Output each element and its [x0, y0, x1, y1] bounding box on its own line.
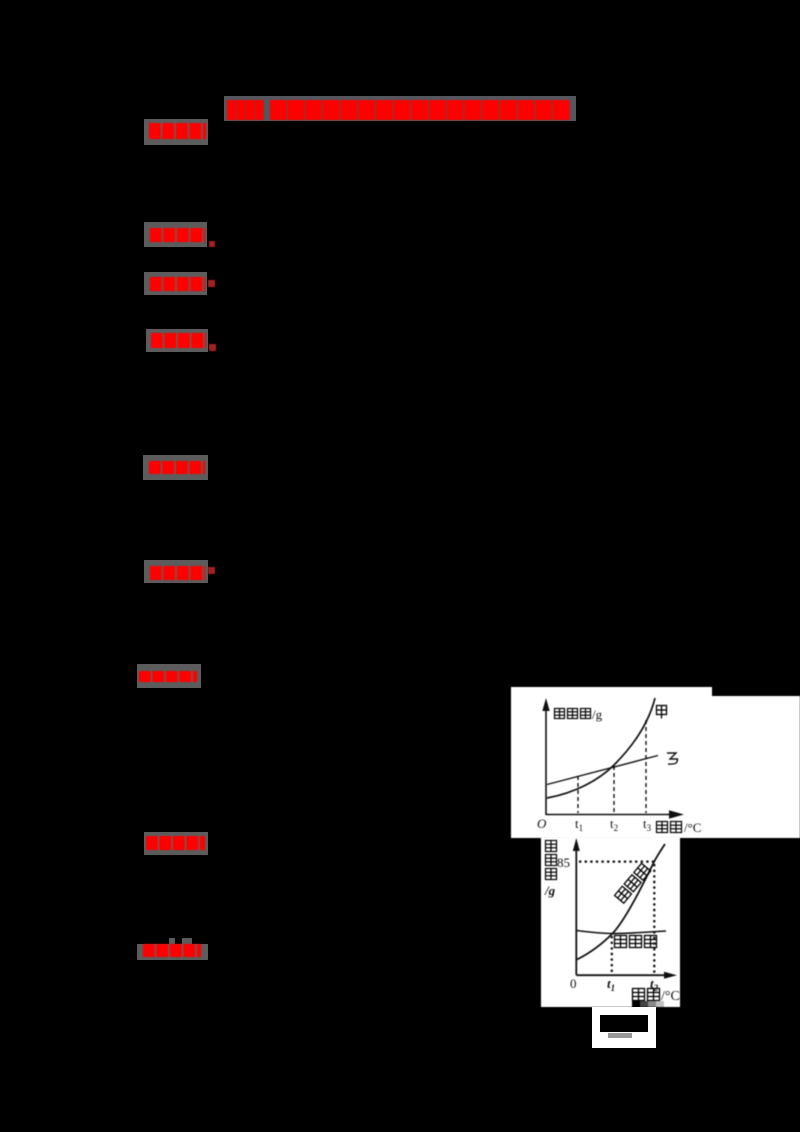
marker 9 highlight box — [137, 944, 208, 960]
chart 1 y-axis — [545, 705, 547, 815]
marker 3 period — [208, 280, 215, 287]
answer stamp black rect — [600, 1015, 648, 1032]
chart 2 gradient strip — [632, 1001, 640, 1007]
chart 1 dashed t3 — [645, 720, 647, 813]
marker 5 highlight box — [143, 455, 208, 480]
chart 1 x-axis label 温度/°C — [657, 822, 682, 833]
chart 1: solubility curves 甲 and 乙 — [511, 687, 800, 838]
svg-text:/g: /g — [592, 707, 603, 722]
marker 6 highlight box — [144, 560, 208, 583]
marker 9 red text — [143, 944, 201, 957]
marker 4 highlight box — [146, 329, 208, 352]
marker 8 red text — [146, 836, 205, 850]
chart 2 dotted t1 — [611, 936, 613, 973]
chart 2 y-axis label 溶解度/g stacked — [546, 841, 557, 880]
marker 8 highlight box — [144, 832, 208, 855]
chart 2 x-axis label 温度/°C — [633, 989, 660, 1001]
chart 1 label 乙 — [667, 753, 678, 764]
chart 2: KNO3 / NaCl solubility — [541, 837, 680, 1007]
title red text 2020年中考化学试题(九年级试题) — [227, 100, 264, 120]
svg-text:0: 0 — [570, 976, 577, 991]
marker 6 period — [208, 567, 215, 574]
marker 7 red text — [139, 671, 197, 682]
marker (6分)(1) highlight box — [144, 119, 208, 145]
marker 7 highlight box — [137, 664, 201, 688]
chart 1 curve 甲 — [547, 698, 655, 798]
chart 1 top-right black notch — [712, 687, 800, 696]
answer stamp gray smudge — [608, 1033, 632, 1038]
svg-text:85: 85 — [557, 855, 570, 870]
chart 1 y-axis label 溶解度/g — [555, 709, 591, 719]
svg-text:O: O — [537, 816, 547, 831]
marker 9 tab a — [169, 938, 175, 944]
chart 2 NaCl curve — [577, 931, 667, 934]
marker 1 red text — [149, 123, 206, 139]
marker 5 red text — [149, 461, 205, 474]
chart 1 dashed t2 — [613, 766, 615, 813]
marker 2 red text — [150, 228, 205, 242]
chart 2 white panel — [541, 837, 680, 1007]
chart 2 dotted t2 — [653, 864, 655, 973]
marker 3 red text — [150, 277, 205, 291]
chart 2 x-axis — [576, 974, 670, 976]
title highlight box — [224, 96, 576, 121]
chart 2 KNO3 curve — [577, 844, 665, 960]
chart 1 label 甲 — [657, 706, 667, 719]
answer stamp white box — [592, 1007, 656, 1048]
chart 2 KNO3 label 硝酸钾 rotated — [615, 863, 651, 903]
svg-text:/g: /g — [544, 883, 556, 898]
marker 4 period — [209, 344, 216, 351]
marker 4 red text — [151, 333, 206, 348]
chart 2 y-axis — [575, 843, 577, 975]
chart 2 NaCl label 氯化钠 — [615, 936, 657, 948]
marker 2 highlight box — [144, 222, 207, 247]
svg-text:/°C: /°C — [684, 820, 701, 835]
chart 1 dashed t1 — [577, 776, 579, 813]
chart 1 x-axis — [546, 814, 672, 816]
marker 2 period — [209, 241, 215, 247]
marker 6 red text — [150, 566, 205, 580]
chart 1 white panel — [511, 687, 800, 838]
marker 9 tab b — [182, 938, 192, 944]
marker 3 highlight box — [144, 272, 207, 295]
chart 2 dotted 85 line — [579, 860, 654, 862]
chart 1 line 乙 — [547, 756, 658, 785]
